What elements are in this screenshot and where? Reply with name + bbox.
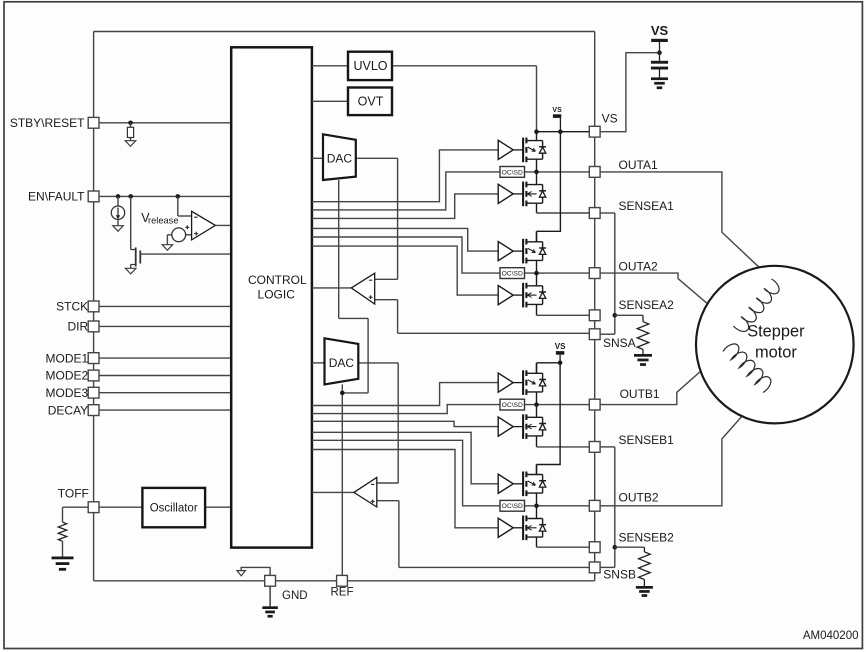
svg-text:VS: VS <box>552 107 562 114</box>
svg-text:VS: VS <box>555 342 566 351</box>
svg-text:EN\FAULT: EN\FAULT <box>28 190 85 204</box>
svg-text:DIR: DIR <box>68 320 89 334</box>
svg-text:LOGIC: LOGIC <box>258 287 296 301</box>
svg-text:release: release <box>148 216 179 226</box>
svg-text:VS: VS <box>602 112 618 126</box>
svg-text:STBY\RESET: STBY\RESET <box>10 116 85 130</box>
svg-text:TOFF: TOFF <box>58 487 89 501</box>
svg-text:OVT: OVT <box>358 94 384 108</box>
svg-text:OC\SD: OC\SD <box>502 503 523 510</box>
svg-text:OUTA2: OUTA2 <box>619 259 658 273</box>
svg-text:DECAY: DECAY <box>48 403 88 417</box>
svg-text:OC\SD: OC\SD <box>502 402 523 409</box>
svg-text:OC\SD: OC\SD <box>502 169 523 176</box>
svg-text:AM040200: AM040200 <box>803 630 859 642</box>
svg-text:SENSEA1: SENSEA1 <box>619 199 675 213</box>
svg-text:DAC: DAC <box>327 151 353 165</box>
svg-text:MODE2: MODE2 <box>46 369 89 383</box>
svg-text:SNSA: SNSA <box>603 336 636 350</box>
svg-text:MODE1: MODE1 <box>46 351 89 365</box>
svg-text:CONTROL: CONTROL <box>248 273 307 287</box>
svg-text:REF: REF <box>331 586 354 598</box>
svg-text:SENSEB1: SENSEB1 <box>619 433 675 447</box>
svg-text:VS: VS <box>651 23 669 38</box>
svg-text:Stepper: Stepper <box>747 323 805 341</box>
svg-text:Oscillator: Oscillator <box>150 502 198 514</box>
svg-text:OUTB1: OUTB1 <box>620 387 660 401</box>
svg-text:motor: motor <box>755 344 797 362</box>
svg-text:DAC: DAC <box>329 356 355 370</box>
svg-text:SNSB: SNSB <box>603 567 636 581</box>
svg-text:OUTA1: OUTA1 <box>619 158 658 172</box>
svg-text:GND: GND <box>282 590 308 602</box>
svg-text:STCK: STCK <box>56 300 88 314</box>
svg-text:SENSEB2: SENSEB2 <box>619 531 675 545</box>
svg-text:SENSEA2: SENSEA2 <box>619 298 675 312</box>
svg-text:MODE3: MODE3 <box>46 386 89 400</box>
svg-text:OUTB2: OUTB2 <box>619 490 659 504</box>
svg-text:OC\SD: OC\SD <box>502 271 523 278</box>
svg-text:UVLO: UVLO <box>353 59 387 73</box>
